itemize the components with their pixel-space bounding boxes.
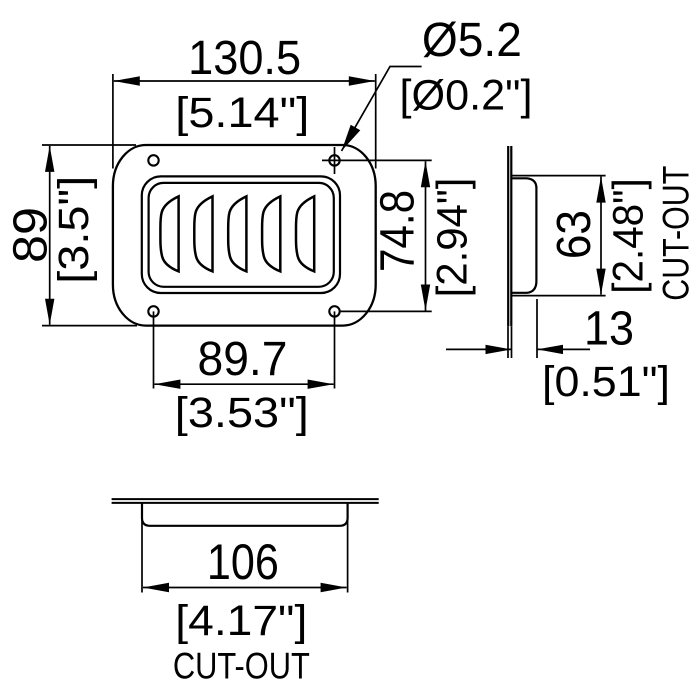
dimension text [4.17"] (175, 598, 307, 645)
side view: tub top edge / extension line (511, 175, 605, 177)
dimension 89: dimension line and arrowheads (45, 146, 54, 325)
hole callout leader line (342, 67, 422, 152)
front view: outer plate outline (113, 145, 376, 326)
louver 2 (194, 196, 212, 271)
side view: tub wall profile (512, 178, 537, 292)
svg-text:[3.53"]: [3.53"] (175, 390, 309, 437)
svg-text:89: 89 (4, 207, 57, 263)
svg-text:[3.5"]: [3.5"] (51, 176, 98, 284)
svg-text:13: 13 (584, 303, 634, 356)
louver 1 (160, 196, 178, 271)
dimension 13: extension lines (508, 299, 537, 358)
dimension 89: extension lines (42, 145, 137, 326)
svg-text:[2.94"]: [2.94"] (430, 178, 477, 298)
dimension 74.8: dimension line and arrowheads (421, 161, 430, 310)
svg-text:[5.14"]: [5.14"] (175, 90, 309, 137)
dimension text 89 mm (rotated) (4, 207, 57, 263)
dimension text 89.7 mm (198, 333, 288, 386)
mounting hole top-right with crosshair (329, 147, 339, 174)
mounting hole top-left (148, 155, 158, 165)
dimension text 106 mm (207, 534, 279, 590)
dimension 106: extension lines (142, 503, 348, 593)
hole callout text [Ø0.2"] (400, 73, 533, 120)
svg-text:CUT-OUT: CUT-OUT (654, 166, 696, 301)
front view: recess outer edge (142, 176, 340, 293)
dimension text [2.94"] (rotated) (430, 178, 477, 298)
svg-text:Ø5.2: Ø5.2 (422, 14, 522, 67)
dimension text 63 mm (rotated) (548, 210, 601, 259)
hole callout text Ø5.2 (422, 14, 522, 67)
dimension 74.8: extension lines (322, 160, 432, 311)
svg-text:106: 106 (207, 534, 279, 590)
dimension 89.7: dimension line and arrowheads (154, 380, 333, 389)
side view: flange plate (two vertical lines) (508, 146, 511, 326)
dimension text [5.14"] (175, 90, 309, 137)
dimension text 13 mm (584, 303, 634, 356)
mounting hole bottom-right (329, 306, 339, 316)
svg-text:[4.17"]: [4.17"] (175, 598, 307, 645)
svg-text:[0.51"]: [0.51"] (542, 359, 670, 406)
svg-text:63: 63 (548, 210, 601, 259)
louver 3 (228, 196, 246, 271)
dimension 130.5: extension lines (113, 74, 376, 169)
dimension 13: dimension line and arrowheads (446, 345, 590, 354)
svg-text:[2.48"]: [2.48"] (606, 178, 653, 293)
mounting hole bottom-left (148, 306, 158, 316)
louver 5 (296, 196, 314, 271)
dimension 63: dimension line and arrowheads (596, 177, 605, 295)
label CUT-OUT (rotated) (654, 166, 696, 301)
dimension text 74.8 mm (rotated) (371, 190, 424, 272)
front view: recess inner edge (149, 183, 334, 287)
dimension text [3.5"] (rotated) (51, 176, 98, 284)
svg-text:89.7: 89.7 (198, 333, 288, 386)
svg-text:[Ø0.2"]: [Ø0.2"] (400, 73, 533, 120)
svg-text:74.8: 74.8 (371, 190, 424, 272)
side view: tub bottom edge / extension line (511, 295, 605, 297)
label CUT-OUT (173, 645, 310, 687)
dimension text 130.5 mm (188, 32, 301, 85)
dimension 130.5: dimension line and arrowheads (114, 76, 375, 85)
dimension text [0.51"] (542, 359, 670, 406)
dimension 89.7: extension lines (154, 311, 335, 388)
dimension text [2.48"] (rotated) (606, 178, 653, 293)
dimension 106: dimension line and arrowheads (143, 583, 347, 592)
louver 4 (262, 196, 280, 271)
bottom view: flange plate (two horizontal lines) (112, 499, 379, 503)
svg-text:130.5: 130.5 (188, 32, 301, 85)
dimension text [3.53"] (175, 390, 309, 437)
svg-text:CUT-OUT: CUT-OUT (173, 645, 310, 687)
bottom view: tub profile (142, 503, 348, 526)
